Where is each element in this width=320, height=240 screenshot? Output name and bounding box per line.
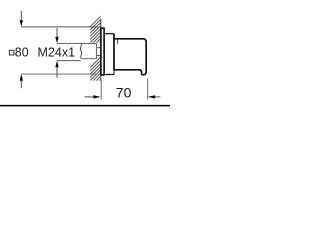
sleeve bottom — [105, 74, 114, 76]
dim arrow (M24 lower, up) — [55, 61, 58, 68]
wall surface line above plate — [100, 19, 102, 27]
svg-text:80: 80 — [15, 45, 29, 59]
dim arrow top (square 80, down) — [20, 11, 22, 21]
dim arrow bottom (square 80, up) — [20, 74, 23, 81]
witness line right (handle face) — [147, 78, 149, 99]
svg-text:70: 70 — [116, 85, 132, 101]
witness line left (wall face) — [100, 80, 102, 100]
dim 70 right arrow (left-pointing) — [148, 95, 155, 98]
sleeve right edge — [113, 34, 115, 70]
sleeve top — [105, 33, 114, 35]
threaded neck through wall — [97, 47, 101, 49]
dim ext line (M24 lower) — [57, 60, 81, 62]
label: square symbol — [9, 50, 14, 55]
handle seam line — [117, 40, 119, 45]
bottom separator rule — [0, 105, 170, 107]
dim 70 left arrow (right-pointing) — [85, 96, 94, 98]
svg-text:M24x1: M24x1 — [38, 45, 76, 59]
dim ext line top (square 80, upper) — [21, 26, 98, 28]
handle outline — [114, 39, 146, 75]
wall surface line below plate — [100, 76, 102, 81]
wall hatching upper — [90, 3, 102, 57]
escutcheon plate — [101, 28, 104, 75]
wall hatching lower — [90, 44, 102, 94]
dim ext line (M24 upper) + valve body top edge — [57, 42, 96, 44]
valve body behind wall (with break squiggle) — [81, 43, 96, 58]
dim ext line (square 80, lower) — [21, 73, 97, 75]
dim arrow (M24 upper, down) — [56, 28, 58, 38]
